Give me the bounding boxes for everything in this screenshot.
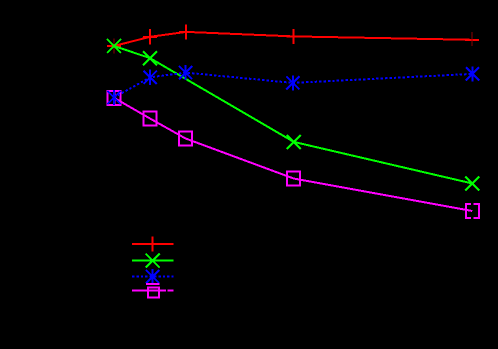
- blue series dotted line: [107, 65, 479, 105]
- legend: red entry: [132, 236, 173, 251]
- notches on last magenta square: [471, 203, 474, 219]
- legend: magenta entry: [132, 283, 173, 297]
- red series line: [107, 24, 479, 53]
- legend: blue entry: [132, 269, 173, 284]
- green series line: [107, 39, 479, 191]
- legend: green entry: [132, 254, 173, 268]
- magenta series line: [108, 91, 479, 218]
